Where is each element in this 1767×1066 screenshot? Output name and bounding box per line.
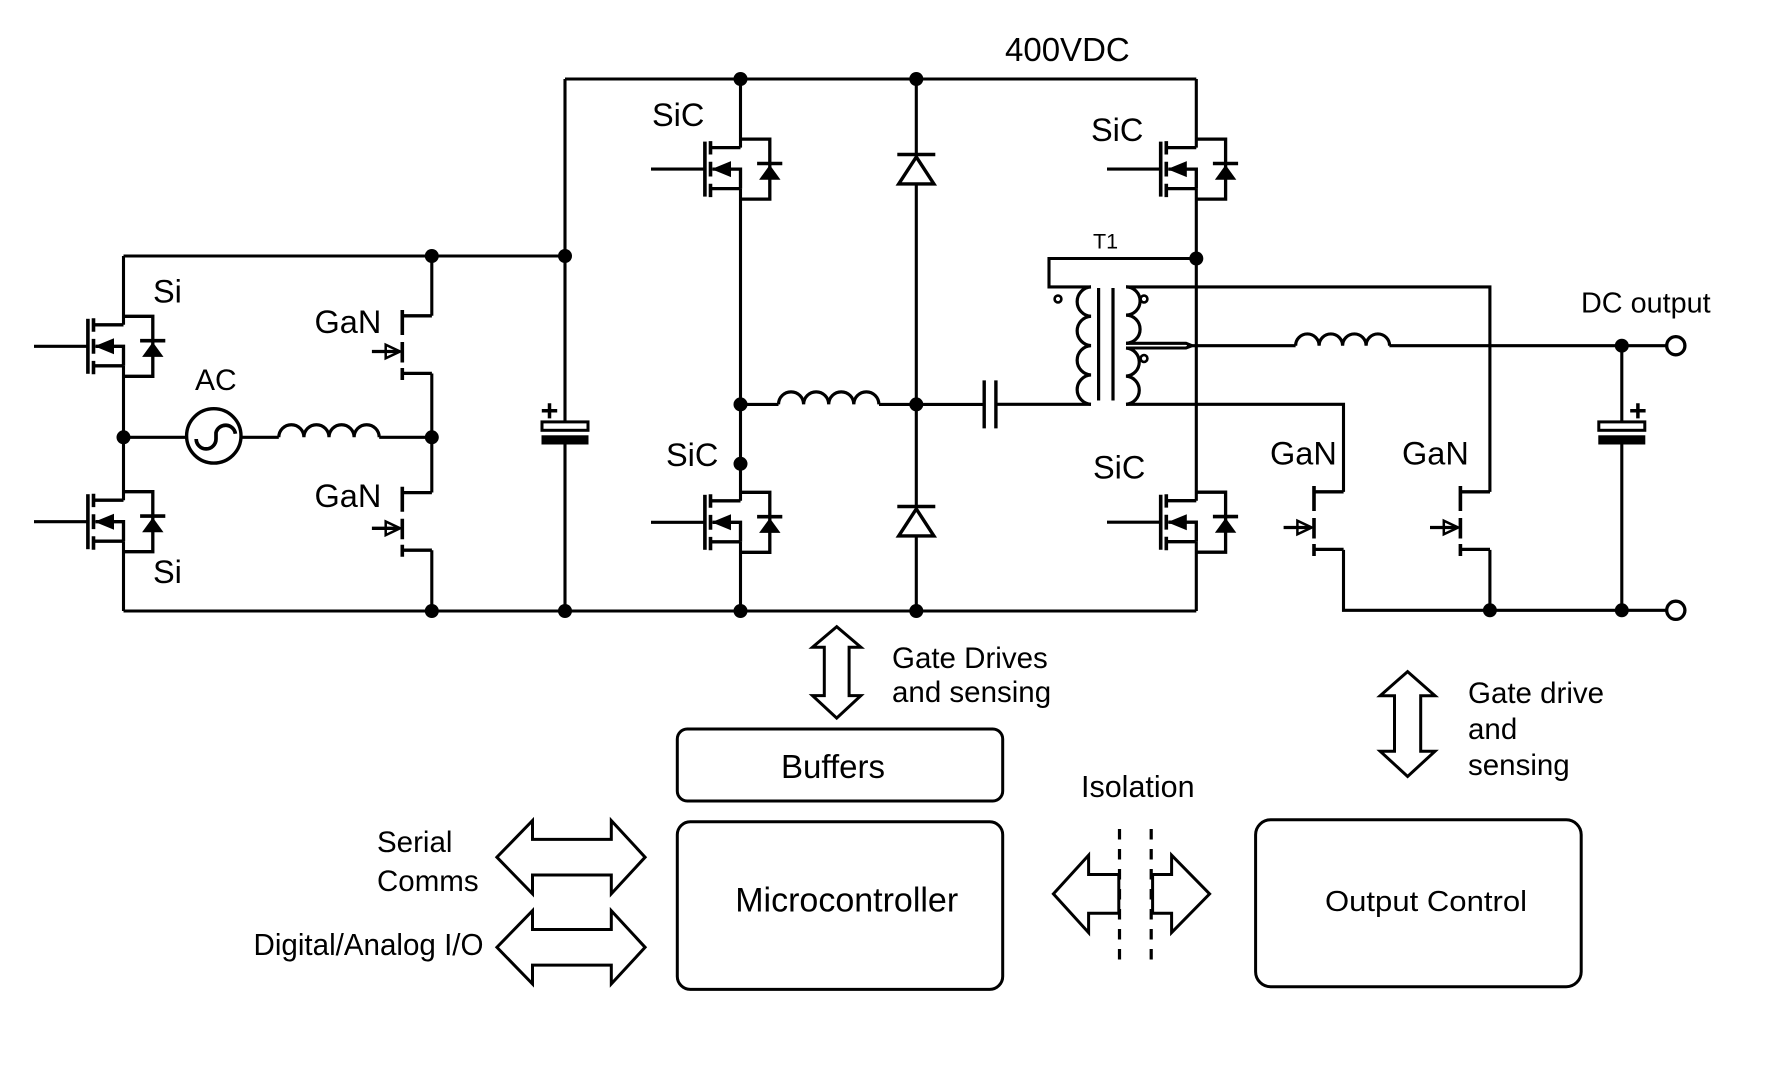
svg-text:Output Control: Output Control [1325,886,1527,918]
svg-text:GaN: GaN [315,304,382,340]
capacitor C2 (series resonant) [984,380,996,428]
node bottom rail x431 [425,604,439,618]
label SiC bottom right [1093,450,1145,486]
wire PFC GaN leg [430,256,433,611]
node bottom rail x565 [558,604,572,618]
svg-text:Microcontroller: Microcontroller [735,882,958,920]
wire DC-link cap bottom lead [563,444,566,611]
svg-text:and sensing: and sensing [892,676,1051,709]
wire left rail segments (Si leg) [122,256,125,611]
label Output Control [1325,886,1527,918]
node dots [117,72,1629,618]
inductor L3 (output filter) [1296,334,1390,346]
node GaN Q8 source / bottom [1483,603,1497,617]
wire T1 primary top tap [1049,259,1196,287]
wire L2 to diode leg [879,403,916,406]
arrow Gate Drives (vertical double arrow) [813,627,861,718]
wire GaN Q7 source to bottom output rail [1344,550,1667,610]
wire bottom rail [124,609,1197,612]
wire AC source to inductor L1 [240,436,278,439]
transistor GaN Q7 (sync rect left) [1284,486,1344,556]
svg-text:Si: Si [153,274,182,310]
terminal DC output minus [1667,601,1685,619]
transistor SiC Q3 (bridge top left) [705,139,782,199]
arrow Serial Comms (horizontal double arrow) [497,821,645,894]
wire output cap C3 bottom lead [1620,444,1623,610]
wire gate stub Si Q1 [34,345,88,348]
wire bridge mid to L2 [741,403,779,406]
svg-text:Comms: Comms [377,865,479,898]
label Gate Drives and sensing [892,642,1051,709]
svg-text:SiC: SiC [1091,112,1143,148]
inductor L2 (resonant) [779,392,879,405]
wire T1 secondary bottom to GaN Q7 drain [1126,404,1344,492]
node output cap bottom [1615,603,1629,617]
inductor L1 (PFC boost) [279,425,379,438]
node left leg lower [734,457,748,471]
label Si bottom [153,554,182,590]
node bridge mid diode leg [909,397,923,411]
label Gate drive and sensing [1468,677,1604,782]
transistor GaN Q3a (PFC top) [372,310,432,380]
svg-text:Isolation: Isolation [1081,770,1195,804]
svg-text:GaN: GaN [1402,435,1469,471]
capacitor C1 (DC link) [542,403,588,444]
arrow isolation right [1153,855,1210,932]
wire right bridge leg [1195,79,1198,611]
wire gate stub Si Q2 [34,520,88,523]
arrow isolation left [1053,855,1118,932]
label SiC bottom left [666,437,718,473]
transistor SiC Q5 (bridge top right) [1161,139,1238,199]
svg-text:Buffers: Buffers [781,748,885,785]
transistor SiC Q6 (bridge bottom right) [1161,492,1238,552]
isolation barrier dashed line left [1118,829,1121,961]
label SiC top right [1091,112,1143,148]
svg-text:and: and [1468,713,1517,746]
node AC mid [117,430,131,444]
label GaN Q8 [1402,435,1469,471]
wire PFC top rail [124,254,566,257]
diode D1 (top) [897,155,935,184]
svg-text:400VDC: 400VDC [1005,31,1130,68]
label Digital/Analog I/O [254,928,484,962]
arrow Gate drive right (vertical double arrow) [1380,672,1435,777]
transistor Si Q1 (top left) [88,316,165,376]
label AC [195,364,237,397]
label GaN PFC top [315,304,382,340]
wire gate stub SiC Q5 [1107,168,1160,171]
label DC output [1581,288,1711,320]
svg-text:Si: Si [153,554,182,590]
wire gate stub SiC Q3 [651,168,705,171]
label Serial Comms [377,826,479,898]
svg-text:Digital/Analog I/O: Digital/Analog I/O [254,928,484,962]
node PFC top / GaN leg [425,249,439,263]
wire gate stub SiC Q4 [651,521,705,524]
transistor GaN Q3b (PFC bottom) [372,487,432,557]
svg-text:GaN: GaN [315,478,382,514]
node bridge mid left [734,397,748,411]
svg-text:sensing: sensing [1468,749,1570,782]
arrow Digital/Analog I/O (horizontal double arrow) [497,911,645,984]
wire AC source left lead [124,436,188,439]
wire T1 secondary top to GaN Q8 drain [1126,287,1490,492]
svg-text:GaN: GaN [1270,435,1337,471]
label T1 [1093,230,1118,254]
transistor Si Q2 (bottom left) [88,492,165,552]
wire T1 center tap leads [1126,343,1192,348]
wire top 400VDC rail [565,77,1196,80]
wire left bridge leg [739,79,742,611]
node bottom rail x740 [734,604,748,618]
node PFC mid [425,430,439,444]
svg-text:T1: T1 [1093,230,1118,254]
wire C2 to T1 primary bottom [996,403,1091,406]
transistor SiC Q4 (bridge bottom left) [705,492,782,552]
terminal DC output plus [1667,337,1685,355]
wire gate stub SiC Q6 [1107,521,1160,524]
label SiC top left [652,97,704,133]
node bottom rail x916 [909,604,923,618]
AC source V1 [187,409,241,463]
transformer T1 [1055,287,1148,404]
wire L3 to DC output plus terminal [1389,344,1666,347]
label 400VDC [1005,31,1130,68]
wire L1 to GaN leg node [379,436,432,439]
diode D2 (bottom) [897,507,935,536]
node T1 primary top [1189,252,1203,266]
label GaN PFC bottom [315,478,382,514]
box Output Control [1256,820,1582,987]
label Microcontroller [735,882,958,920]
svg-text:DC output: DC output [1581,288,1711,320]
node PFC top / DC-link leg [558,249,572,263]
label Buffers [781,748,885,785]
transistor GaN Q8 (sync rect right) [1430,486,1490,556]
box Buffers [677,729,1002,801]
label GaN Q7 [1270,435,1337,471]
box Microcontroller [677,822,1002,990]
svg-text:SiC: SiC [666,437,718,473]
label Isolation [1081,770,1195,804]
wire center tap to L3 [1187,344,1296,347]
wire output cap C3 top lead [1620,346,1623,422]
capacitor C3 (output) [1599,403,1646,444]
wire GaN Q8 source lead [1488,550,1491,610]
node output plus [1615,339,1629,353]
svg-text:SiC: SiC [652,97,704,133]
label Si top [153,274,182,310]
svg-text:AC: AC [195,364,237,397]
wire DC-link cap top lead [563,79,566,421]
svg-text:SiC: SiC [1093,450,1145,486]
isolation barrier dashed line right [1150,829,1153,961]
node top rail / left leg [734,72,748,86]
svg-text:Serial: Serial [377,826,452,859]
wire diode leg [915,79,918,611]
node top rail / diode leg [909,72,923,86]
svg-text:Gate Drives: Gate Drives [892,642,1048,675]
svg-text:Gate drive: Gate drive [1468,677,1604,710]
wire diode leg to C2 [916,403,984,406]
